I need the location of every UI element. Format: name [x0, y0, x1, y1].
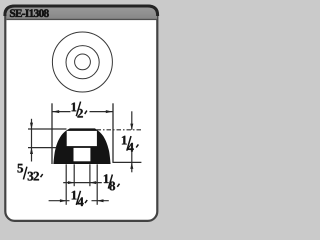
title text SE-I1308: [10, 9, 49, 17]
extension line 5/32 bottom: [28, 147, 56, 149]
center line dash-dot right of dome top: [97, 129, 142, 131]
top view inner circle: [75, 54, 91, 70]
label 1/2 numerator: [72, 103, 77, 112]
dimension line 1/4 right upper segment: [131, 111, 133, 130]
dimension line 1/2 right segment: [90, 111, 114, 113]
arrow 5/32 bottom (up): [30, 147, 33, 154]
section center hole (white): [74, 148, 91, 161]
label 1/2 inch ditto: [85, 111, 87, 114]
label 1/4 bottom denominator: [77, 197, 83, 206]
label 1/4 right numerator: [122, 136, 127, 145]
arrow 1/8 left (right-pointing): [68, 181, 75, 184]
label 5/32 inch ditto: [41, 174, 43, 177]
extension line below base: recess left: [65, 164, 67, 205]
extension line left of dome (1/2 dim): [51, 103, 53, 164]
title bar: [7, 7, 158, 19]
label 1/8 slash: [108, 175, 112, 189]
arrow 1/2 left: [52, 110, 59, 113]
extension line below base: hole right: [89, 164, 91, 186]
arrow 1/8 right (left-pointing): [90, 181, 97, 184]
label 5/32 slash: [23, 167, 27, 180]
base extension line right: [113, 161, 142, 163]
label 1/8 denominator: [109, 182, 115, 191]
label 1/8 numerator: [104, 174, 109, 183]
extension line right of dome (1/2 dim): [112, 103, 114, 162]
top view outer circle: [52, 32, 112, 92]
top border thick band: [5, 6, 158, 16]
label 1/4 bottom inch ditto: [85, 200, 87, 203]
arrow 1/4 right bottom (up): [130, 162, 133, 169]
top view middle circle: [66, 46, 99, 79]
label 5/32 denominator: [28, 172, 39, 181]
section recess cavity (white): [67, 131, 97, 146]
dimension line 1/4 bottom left segment: [49, 200, 70, 202]
card panel with dark rounded frame: [5, 6, 157, 221]
label 1/8 inch ditto: [117, 184, 119, 187]
label 5/32 numerator: [18, 164, 24, 173]
arrow 5/32 top (down): [30, 123, 33, 130]
arrow 1/4 bottom left (right-pointing): [60, 199, 67, 202]
label 1/4 right inch ditto: [136, 144, 138, 147]
dimension line 1/4 right lower segment: [131, 152, 133, 173]
extension line below base: recess right: [96, 164, 98, 205]
label 1/4 right denominator: [128, 143, 134, 152]
extension line 5/32 top: [28, 128, 67, 130]
arrow 1/2 right: [106, 110, 113, 113]
dimension line 1/2 left segment: [52, 111, 71, 113]
title bar bottom edge: [7, 19, 158, 20]
label 1/4 right slash: [127, 136, 131, 151]
label 1/4 bottom numerator: [72, 191, 77, 200]
dimension line 1/8: [63, 182, 102, 184]
dimension line 1/4 bottom right segment: [92, 200, 109, 202]
arrow 1/4 right top (down): [130, 124, 133, 131]
dimension line 5/32 vertical: [31, 119, 33, 162]
section dome silhouette: [53, 128, 110, 164]
extension line below base: hole left: [73, 164, 75, 186]
arrow 1/4 bottom right (left-pointing): [97, 199, 104, 202]
label 1/4 bottom slash: [76, 191, 80, 205]
page background: [0, 0, 170, 231]
label 1/2 denominator: [77, 109, 82, 118]
label 1/2 slash: [76, 102, 80, 117]
